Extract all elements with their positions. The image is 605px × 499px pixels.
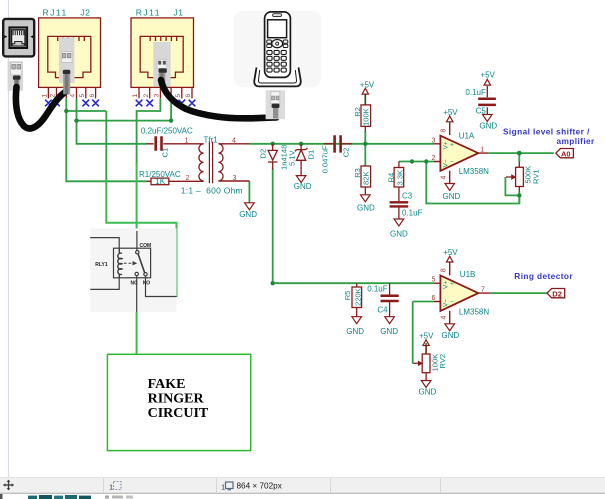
svg-text:100K: 100K xyxy=(362,108,371,126)
svg-text:RV2: RV2 xyxy=(438,354,447,369)
svg-text:RV1: RV1 xyxy=(532,169,541,184)
svg-text:3: 3 xyxy=(154,94,161,98)
svg-text:U1A: U1A xyxy=(459,132,475,141)
svg-text:0.2uF/250VAC: 0.2uF/250VAC xyxy=(141,127,193,136)
svg-text:1: 1 xyxy=(480,147,484,154)
svg-text:3.3K: 3.3K xyxy=(395,170,404,186)
svg-text:GND: GND xyxy=(346,327,364,336)
svg-text:3: 3 xyxy=(233,175,237,182)
svg-text:Ring detector: Ring detector xyxy=(514,271,573,281)
svg-text:CIRCUIT: CIRCUIT xyxy=(148,406,209,421)
svg-text:4: 4 xyxy=(441,176,448,180)
svg-text:+5V: +5V xyxy=(480,71,495,80)
svg-text:U1B: U1B xyxy=(460,270,476,279)
svg-text:V−: V− xyxy=(443,159,450,167)
svg-text:RINGER: RINGER xyxy=(148,392,205,407)
svg-text:R5: R5 xyxy=(343,291,352,301)
svg-text:+5V: +5V xyxy=(443,248,458,257)
svg-text:GND: GND xyxy=(357,204,375,213)
svg-text:D2: D2 xyxy=(259,149,268,159)
svg-text:R4: R4 xyxy=(387,173,396,183)
svg-text:1: 1 xyxy=(185,137,189,144)
svg-text:864 × 702px: 864 × 702px xyxy=(237,481,282,490)
svg-text:RJ11: RJ11 xyxy=(136,7,161,17)
svg-text:0.1uF: 0.1uF xyxy=(367,284,388,293)
svg-text:1: 1 xyxy=(42,94,49,98)
svg-text:1: 1 xyxy=(221,482,225,491)
svg-text:4: 4 xyxy=(232,137,236,144)
svg-text:C3: C3 xyxy=(402,191,413,200)
svg-text:R2: R2 xyxy=(353,107,362,117)
svg-text:GND: GND xyxy=(479,121,497,130)
svg-text:GND: GND xyxy=(443,192,461,201)
svg-text:+: + xyxy=(450,281,454,288)
svg-text:+5V: +5V xyxy=(360,81,375,90)
svg-text:0.1uF: 0.1uF xyxy=(402,209,423,218)
svg-text:C5: C5 xyxy=(476,107,487,116)
svg-text:V−: V− xyxy=(443,299,450,307)
svg-text:2: 2 xyxy=(186,175,190,182)
svg-text:C1: C1 xyxy=(161,148,170,158)
svg-text:5: 5 xyxy=(79,94,86,98)
svg-text:COM: COM xyxy=(140,243,152,249)
svg-text:GND: GND xyxy=(390,230,408,239)
svg-text:GND: GND xyxy=(239,210,257,219)
svg-text:R3: R3 xyxy=(353,168,362,178)
svg-text:+5V: +5V xyxy=(443,108,458,117)
svg-text:4: 4 xyxy=(70,94,77,98)
svg-text:GND: GND xyxy=(380,327,398,336)
svg-text:GND: GND xyxy=(419,387,437,396)
svg-text:V+: V+ xyxy=(443,141,450,149)
svg-text:−: − xyxy=(450,299,454,306)
svg-text:GND: GND xyxy=(442,331,460,340)
svg-text:7: 7 xyxy=(481,287,485,294)
svg-text:8: 8 xyxy=(441,268,448,272)
svg-text:J2: J2 xyxy=(81,7,91,17)
svg-text:FAKE: FAKE xyxy=(148,377,186,392)
svg-text:6: 6 xyxy=(432,295,436,302)
svg-text:2: 2 xyxy=(143,94,150,98)
svg-text:220K: 220K xyxy=(353,288,362,306)
svg-text:1:1 – 600 Ohm: 1:1 – 600 Ohm xyxy=(181,186,243,196)
svg-text:1: 1 xyxy=(132,94,139,98)
svg-text:4: 4 xyxy=(441,316,448,320)
svg-text:6: 6 xyxy=(89,94,96,98)
svg-text:82K: 82K xyxy=(362,171,371,185)
svg-text:D2: D2 xyxy=(552,289,562,298)
svg-text:V+: V+ xyxy=(443,281,450,289)
svg-text:3: 3 xyxy=(432,137,436,144)
svg-text:5: 5 xyxy=(432,277,436,284)
svg-text:RJ11: RJ11 xyxy=(43,7,68,17)
svg-text:+: + xyxy=(450,141,454,148)
svg-text:NC: NC xyxy=(131,281,139,287)
svg-text:C4: C4 xyxy=(377,306,388,315)
svg-text:J1: J1 xyxy=(174,7,184,17)
svg-text:GND: GND xyxy=(294,182,312,191)
svg-text:amplifier: amplifier xyxy=(557,136,596,146)
svg-text:0.1uF: 0.1uF xyxy=(465,88,486,97)
svg-text:A0: A0 xyxy=(561,149,571,158)
svg-text:5: 5 xyxy=(175,94,182,98)
svg-text:+5V: +5V xyxy=(419,332,434,341)
svg-text:6: 6 xyxy=(185,94,192,98)
svg-text:D1: D1 xyxy=(307,150,316,160)
svg-text:LM358N: LM358N xyxy=(459,167,489,176)
svg-text:R1/250VAC: R1/250VAC xyxy=(139,170,181,179)
svg-text:0.047uF: 0.047uF xyxy=(320,145,329,173)
svg-text:2: 2 xyxy=(432,155,436,162)
svg-text:NO: NO xyxy=(143,281,151,287)
svg-text:5.1V: 5.1V xyxy=(287,149,296,166)
svg-text:Tfr1: Tfr1 xyxy=(204,135,219,144)
svg-text:LM358N: LM358N xyxy=(459,308,489,317)
svg-text:C2: C2 xyxy=(341,148,350,158)
svg-text:−: − xyxy=(450,159,454,166)
svg-text:8: 8 xyxy=(441,129,448,133)
svg-text:1: 1 xyxy=(109,482,113,491)
svg-text:RLY1: RLY1 xyxy=(95,262,108,268)
